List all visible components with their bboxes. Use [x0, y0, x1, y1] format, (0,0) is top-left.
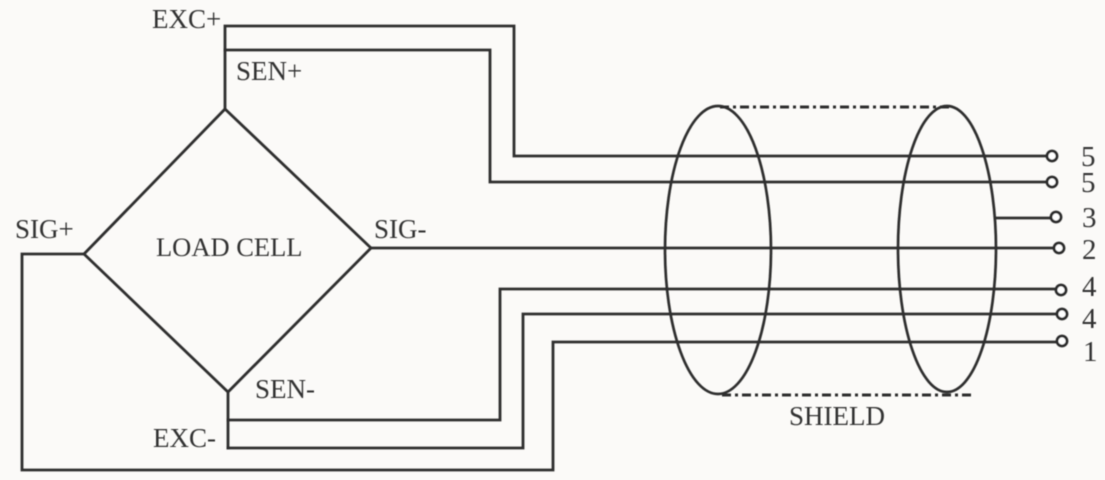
- wire SIG- : right vertex to terminal 2: [371, 247, 1053, 250]
- shield bottom dash-dot line: [722, 394, 975, 397]
- wire shield to terminal 3: [996, 217, 1050, 220]
- terminal 3 (shield): [1051, 212, 1061, 222]
- terminal 5 (EXC+): [1047, 151, 1057, 161]
- svg-text:SEN+: SEN+: [236, 56, 302, 86]
- wire EXC+ : top vertex riser to terminal 5: [225, 26, 1046, 156]
- svg-text:SIG-: SIG-: [374, 214, 427, 244]
- wire SEN+ : tee off riser to terminal 5: [225, 50, 1046, 182]
- terminal 1 (SIG+): [1057, 336, 1067, 346]
- wire SEN- : to terminal 4: [228, 289, 1055, 420]
- svg-text:SIG+: SIG+: [15, 214, 74, 244]
- wire: bottom vertex drop: [227, 392, 230, 448]
- svg-text:EXC+: EXC+: [152, 4, 221, 34]
- terminal 5 (SEN+): [1047, 177, 1057, 187]
- wire SIG+ : left vertex around bottom to terminal 1: [22, 254, 1056, 470]
- svg-text:4: 4: [1082, 303, 1097, 335]
- svg-text:5: 5: [1081, 167, 1096, 199]
- terminal 4 (EXC-): [1057, 309, 1067, 319]
- terminal 2 (SIG-): [1054, 243, 1064, 253]
- load cell bridge (diamond): [84, 109, 371, 392]
- svg-text:3: 3: [1082, 202, 1097, 234]
- shield top dash-dot line: [720, 106, 952, 109]
- svg-text:SEN-: SEN-: [255, 374, 315, 404]
- wire EXC- : to terminal 4: [228, 314, 1056, 448]
- cable shield left ellipse: [665, 106, 771, 394]
- cable shield right ellipse: [898, 106, 996, 392]
- svg-text:EXC-: EXC-: [153, 423, 216, 453]
- svg-text:1: 1: [1083, 336, 1098, 368]
- svg-text:4: 4: [1082, 271, 1097, 303]
- terminal 4 (SEN-): [1056, 285, 1066, 295]
- svg-text:2: 2: [1082, 234, 1097, 266]
- svg-text:SHIELD: SHIELD: [789, 401, 885, 431]
- svg-text:LOAD CELL: LOAD CELL: [156, 232, 302, 262]
